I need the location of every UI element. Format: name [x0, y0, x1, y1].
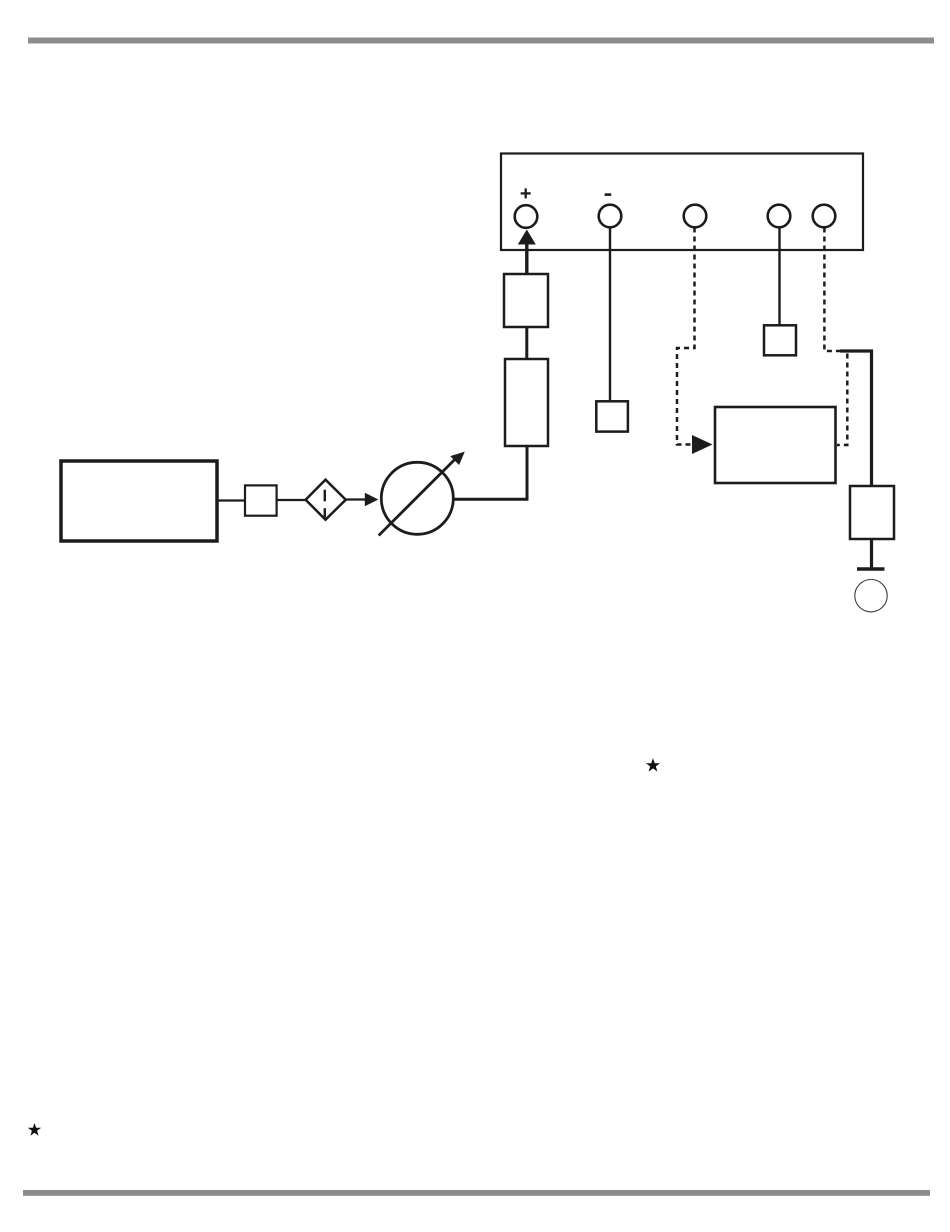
terminal 4	[768, 205, 791, 228]
dashed branch to relay box	[837, 354, 847, 446]
source box	[61, 461, 217, 541]
arrow into terminal 1	[518, 230, 536, 275]
wire block C to ground	[870, 539, 873, 568]
component block A	[504, 274, 548, 327]
wire from terminal 4	[778, 228, 780, 326]
terminal 1 (+)	[515, 205, 538, 228]
star marker 1	[646, 758, 660, 772]
wire square to diamond	[277, 499, 306, 501]
star marker 2	[28, 1123, 41, 1136]
arrow into relay box	[692, 435, 713, 454]
top rule	[28, 38, 934, 44]
wire from terminal 2	[609, 228, 611, 402]
minus label	[605, 193, 612, 196]
filter diamond	[306, 480, 346, 520]
plus label	[521, 188, 531, 198]
dashed wire from terminal 5	[824, 228, 841, 352]
block under terminal 4	[764, 325, 796, 355]
earth circle	[855, 580, 887, 612]
component block B	[505, 359, 548, 446]
terminal 2 (-)	[599, 205, 622, 228]
flow meter	[379, 452, 465, 536]
relay box	[715, 407, 836, 483]
bottom rule	[23, 1190, 930, 1196]
block C	[850, 486, 894, 539]
block under terminal 2	[596, 401, 628, 431]
terminal 5	[813, 205, 836, 228]
terminal 3	[684, 205, 707, 228]
inline square	[245, 485, 277, 515]
arrow into flow meter	[346, 493, 379, 506]
wire flow meter to block B	[453, 446, 527, 499]
ground bar	[857, 567, 885, 571]
enclosure box (instrument terminal strip)	[501, 154, 863, 251]
wire A-B	[525, 327, 528, 359]
wire to block C	[840, 351, 872, 486]
wire source box to square	[217, 499, 245, 501]
dashed wire from terminal 3	[677, 228, 695, 445]
